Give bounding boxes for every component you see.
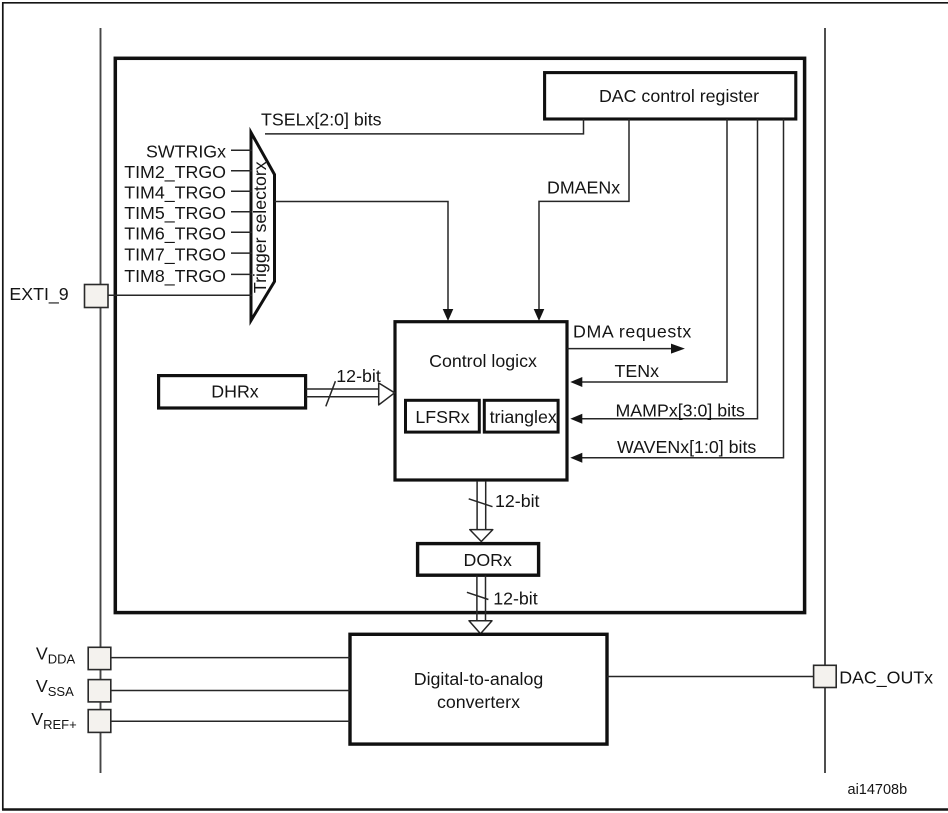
wire SWTRIGx stub	[231, 149, 252, 151]
svg-text:VSSA: VSSA	[36, 676, 74, 699]
svg-text:DHRx: DHRx	[211, 381, 259, 401]
wire DMA requestx output	[567, 348, 672, 350]
svg-text:TIM8_TRGO: TIM8_TRGO	[124, 266, 226, 287]
wire TSELx from DAC control register to trigger selector	[265, 119, 584, 134]
trigger selector mux	[251, 133, 275, 321]
arrowhead TENx	[570, 377, 582, 387]
arrowhead WAVENx	[570, 453, 582, 463]
bus DORx to converter line b	[485, 575, 487, 621]
wire TENx from DAC control register to control logic	[580, 119, 727, 382]
wire TIM6_TRGO stub	[231, 231, 252, 233]
svg-text:SWTRIGx: SWTRIGx	[146, 142, 226, 162]
DAC control register U1	[545, 73, 796, 119]
wire VREF+ to converter	[111, 720, 350, 722]
svg-text:DORx: DORx	[463, 550, 512, 570]
svg-text:TIM6_TRGO: TIM6_TRGO	[124, 224, 226, 245]
svg-text:converterx: converterx	[437, 692, 520, 712]
bus open arrowhead into converter	[469, 621, 492, 634]
peripheral boundary line right	[824, 28, 826, 773]
arrowhead DMA requestx	[671, 344, 685, 354]
svg-text:MAMPx[3:0] bits: MAMPx[3:0] bits	[616, 400, 746, 420]
svg-text:LFSRx: LFSRx	[415, 407, 469, 427]
pin EXTI_9	[85, 285, 109, 308]
LFSRx box	[406, 400, 480, 432]
svg-text:12-bit: 12-bit	[493, 589, 538, 609]
wire TIM5_TRGO stub	[231, 211, 252, 213]
svg-text:TIM7_TRGO: TIM7_TRGO	[124, 245, 226, 266]
wire WAVENx from DAC control register to control logic	[580, 119, 784, 458]
pin DAC_OUTx	[814, 665, 837, 687]
arrowhead trigger output	[443, 309, 454, 321]
bus width slash	[467, 592, 489, 599]
arrowhead DMAENx	[534, 309, 545, 321]
svg-text:TSELx[2:0] bits: TSELx[2:0] bits	[261, 110, 382, 130]
wire TIM4_TRGO stub	[231, 190, 252, 192]
svg-text:EXTI_9: EXTI_9	[9, 284, 68, 305]
wire DMAENx from DAC control register to control logic	[539, 119, 629, 312]
svg-text:ai14708b: ai14708b	[848, 782, 908, 798]
wire converter to DAC_OUTx	[607, 676, 814, 678]
svg-text:DAC control register: DAC control register	[599, 86, 759, 106]
svg-text:TENx: TENx	[615, 361, 660, 381]
svg-text:TIM5_TRGO: TIM5_TRGO	[124, 203, 226, 224]
pin VREF+	[88, 710, 111, 733]
bus DHRx to control logic upper line	[306, 388, 379, 390]
bus DORx to converter line a	[476, 575, 478, 621]
DHRx register box	[159, 376, 306, 408]
svg-text:trianglex: trianglex	[490, 407, 557, 427]
bus DHRx to control logic lower line	[306, 396, 379, 398]
wire MAMPx from DAC control register to control logic	[580, 119, 758, 419]
wire EXTI_9 to trigger selector	[108, 294, 252, 296]
wire TIM2_TRGO stub	[231, 170, 252, 172]
control logic box U2	[395, 322, 567, 480]
pin VSSA	[88, 680, 111, 702]
svg-text:WAVENx[1:0] bits: WAVENx[1:0] bits	[617, 437, 756, 457]
svg-text:TIM4_TRGO: TIM4_TRGO	[124, 183, 226, 204]
svg-text:DAC_OUTx: DAC_OUTx	[839, 668, 933, 689]
wire VSSA to converter	[111, 690, 350, 692]
svg-text:VREF+: VREF+	[31, 709, 76, 732]
wire TIM7_TRGO stub	[231, 252, 252, 254]
bus open arrowhead into DORx	[470, 530, 493, 542]
peripheral boundary line left	[100, 28, 102, 773]
svg-text:DMAENx: DMAENx	[547, 178, 620, 198]
trianglex box	[484, 400, 558, 432]
DAC block border	[115, 58, 804, 612]
svg-text:Digital-to-analog: Digital-to-analog	[414, 669, 543, 689]
pin VDDA	[88, 647, 111, 669]
svg-text:12-bit: 12-bit	[495, 491, 540, 511]
DORx register box	[418, 544, 539, 576]
svg-text:Trigger selectorx: Trigger selectorx	[250, 161, 270, 293]
svg-text:DMA requestx: DMA requestx	[573, 321, 692, 341]
bus width slash	[326, 381, 336, 406]
bus width slash	[469, 499, 493, 507]
svg-text:TIM2_TRGO: TIM2_TRGO	[124, 162, 226, 183]
wire VDDA to converter	[111, 657, 350, 659]
wire TIM8_TRGO stub	[231, 273, 252, 275]
svg-text:12-bit: 12-bit	[336, 366, 381, 386]
bus control logic to DORx line a	[476, 481, 478, 530]
arrowhead MAMPx	[570, 414, 582, 424]
svg-text:Control logicx: Control logicx	[429, 351, 537, 371]
wire trigger selector output to control logic	[275, 202, 449, 313]
svg-text:VDDA: VDDA	[36, 644, 76, 667]
digital-to-analog converter box U3	[350, 634, 607, 744]
bus control logic to DORx line b	[485, 481, 487, 530]
bus open arrowhead into control logic	[379, 383, 395, 405]
frame bottom border	[2, 808, 948, 811]
